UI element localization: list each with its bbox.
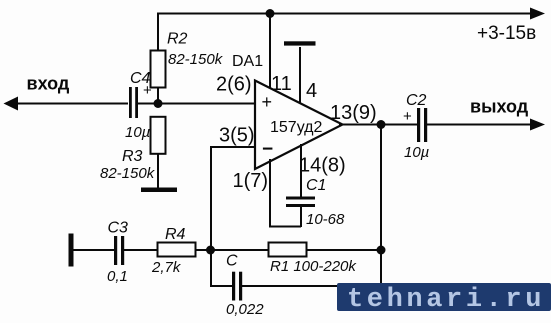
svg-text:14(8): 14(8): [299, 155, 346, 177]
svg-text:C1: C1: [306, 177, 326, 194]
svg-text:R3: R3: [122, 148, 143, 165]
svg-text:10µ: 10µ: [125, 124, 150, 141]
svg-text:R2: R2: [167, 31, 188, 48]
svg-text:82-150k: 82-150k: [168, 51, 224, 68]
svg-text:1(7): 1(7): [233, 170, 269, 192]
svg-text:R1 100-220k: R1 100-220k: [270, 258, 357, 275]
svg-text:2,7k: 2,7k: [151, 259, 182, 276]
svg-text:tehnari.ru: tehnari.ru: [347, 285, 545, 315]
svg-text:13(9): 13(9): [330, 102, 377, 124]
svg-text:11: 11: [271, 73, 292, 95]
svg-text:10µ: 10µ: [404, 144, 429, 161]
svg-text:+3-15в: +3-15в: [477, 23, 536, 44]
svg-text:3(5): 3(5): [219, 125, 255, 147]
svg-text:−: −: [262, 139, 273, 160]
svg-text:10-68: 10-68: [306, 211, 345, 228]
svg-text:C: C: [226, 253, 238, 270]
svg-text:C2: C2: [406, 92, 427, 109]
svg-text:C3: C3: [108, 220, 129, 237]
svg-text:82-150k: 82-150k: [100, 165, 156, 182]
svg-text:DA1: DA1: [232, 53, 263, 70]
svg-text:R4: R4: [165, 226, 186, 243]
svg-text:+: +: [143, 82, 152, 99]
svg-text:вход: вход: [27, 74, 70, 94]
svg-text:0,022: 0,022: [226, 301, 264, 318]
svg-text:2(6): 2(6): [216, 74, 252, 96]
svg-text:+: +: [262, 92, 273, 112]
svg-text:+: +: [403, 108, 412, 125]
svg-text:выход: выход: [470, 97, 529, 117]
svg-text:157уд2: 157уд2: [270, 119, 323, 136]
svg-text:4: 4: [306, 80, 317, 102]
svg-text:0,1: 0,1: [107, 268, 128, 285]
